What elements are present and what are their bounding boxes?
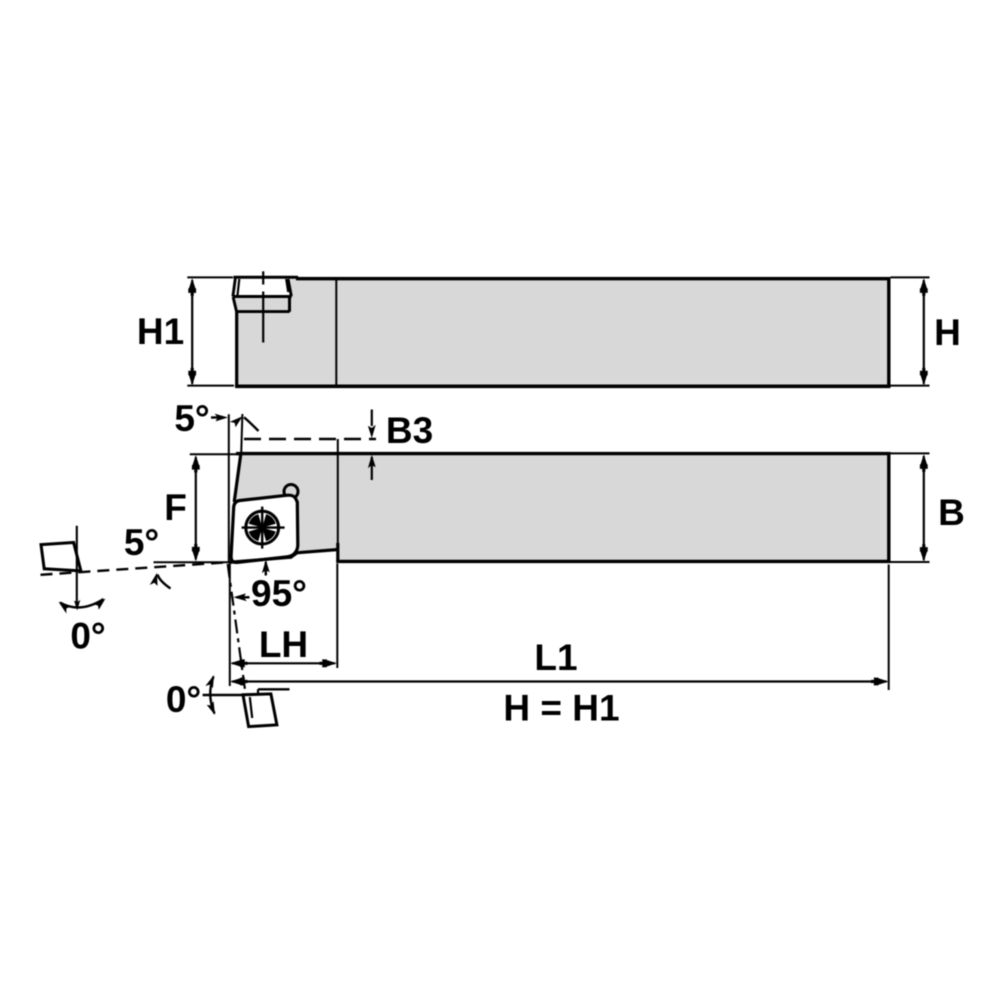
svg-text:0°: 0° [166, 679, 201, 720]
svg-text:H = H1: H = H1 [503, 688, 619, 729]
svg-text:B: B [938, 492, 965, 533]
svg-text:B3: B3 [386, 410, 433, 451]
svg-text:5°: 5° [174, 398, 209, 439]
svg-text:H: H [934, 312, 961, 353]
svg-text:L1: L1 [534, 637, 577, 678]
svg-text:F: F [164, 487, 187, 528]
svg-text:0°: 0° [70, 616, 105, 657]
svg-text:95°: 95° [251, 573, 307, 614]
svg-text:5°: 5° [124, 522, 159, 563]
svg-text:H1: H1 [137, 311, 184, 352]
svg-text:LH: LH [259, 624, 308, 665]
